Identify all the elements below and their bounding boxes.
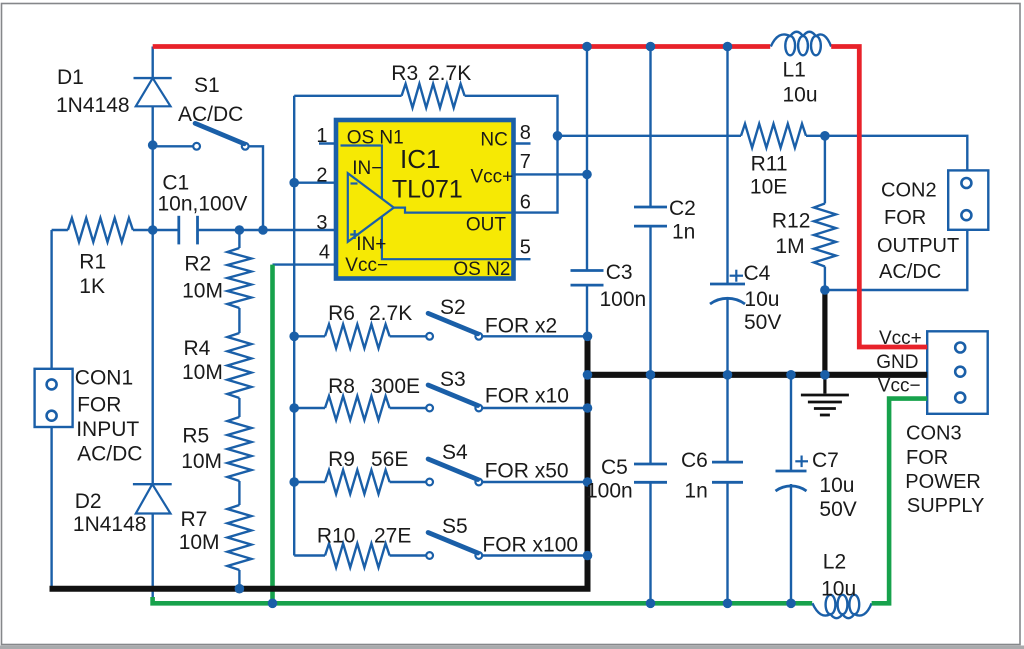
svg-text:3: 3 [316, 212, 327, 234]
svg-text:C3: C3 [606, 261, 633, 284]
svg-text:R3: R3 [391, 62, 418, 85]
svg-text:Vcc−: Vcc− [878, 376, 921, 397]
svg-text:50V: 50V [819, 498, 856, 521]
svg-text:L2: L2 [823, 550, 846, 573]
svg-text:C5: C5 [601, 456, 628, 479]
svg-text:CON2: CON2 [881, 180, 937, 202]
svg-text:1n: 1n [672, 221, 695, 244]
svg-text:7: 7 [520, 151, 531, 173]
svg-text:FOR: FOR [906, 447, 948, 469]
svg-text:Vcc+: Vcc+ [879, 328, 922, 349]
svg-text:10M: 10M [182, 361, 223, 384]
svg-text:INPUT: INPUT [76, 418, 139, 441]
svg-text:OS N1: OS N1 [347, 128, 404, 149]
svg-text:FOR: FOR [884, 207, 926, 229]
svg-text:2.7K: 2.7K [428, 62, 471, 85]
svg-text:R6: R6 [328, 302, 355, 325]
svg-text:R1: R1 [79, 251, 106, 274]
svg-text:OUTPUT: OUTPUT [877, 235, 959, 257]
svg-text:AC/DC: AC/DC [77, 443, 142, 466]
svg-text:5: 5 [520, 237, 531, 259]
svg-text:S2: S2 [440, 296, 466, 319]
svg-text:R4: R4 [184, 337, 211, 360]
svg-text:C4: C4 [744, 262, 771, 285]
svg-text:50V: 50V [744, 311, 781, 334]
svg-text:TL071: TL071 [392, 176, 463, 204]
svg-text:Vcc−: Vcc− [345, 255, 388, 276]
svg-text:FOR x50: FOR x50 [485, 460, 569, 483]
svg-text:C2: C2 [669, 197, 696, 220]
svg-text:FOR: FOR [77, 393, 121, 416]
svg-text:R11: R11 [751, 153, 788, 176]
svg-text:100n: 100n [586, 480, 633, 503]
svg-text:10u: 10u [744, 288, 779, 311]
svg-text:2: 2 [316, 165, 327, 187]
svg-text:FOR x100: FOR x100 [482, 534, 578, 557]
svg-text:2.7K: 2.7K [369, 302, 412, 325]
svg-text:FOR x2: FOR x2 [485, 314, 557, 337]
svg-text:56E: 56E [371, 448, 408, 471]
svg-text:10M: 10M [181, 450, 222, 473]
svg-text:OS N2: OS N2 [453, 259, 510, 280]
svg-text:8: 8 [520, 122, 531, 144]
svg-text:SUPPLY: SUPPLY [907, 495, 984, 517]
svg-text:R7: R7 [181, 508, 208, 531]
svg-text:CON1: CON1 [75, 367, 133, 390]
svg-text:R8: R8 [328, 375, 355, 398]
svg-text:1N4148: 1N4148 [56, 94, 130, 117]
svg-text:C1: C1 [162, 172, 189, 195]
svg-text:C6: C6 [681, 449, 708, 472]
svg-text:1N4148: 1N4148 [73, 513, 147, 536]
svg-text:10u: 10u [783, 84, 818, 107]
svg-text:10E: 10E [750, 176, 787, 199]
svg-text:IN+: IN+ [356, 234, 386, 255]
svg-text:NC: NC [480, 129, 507, 150]
svg-text:POWER: POWER [905, 471, 981, 493]
svg-text:6: 6 [520, 192, 531, 214]
svg-text:1: 1 [316, 125, 327, 147]
svg-text:10u: 10u [819, 474, 854, 497]
svg-text:300E: 300E [371, 375, 420, 398]
svg-text:1M: 1M [775, 235, 804, 258]
svg-text:D2: D2 [75, 490, 102, 513]
svg-text:Vcc+: Vcc+ [471, 166, 514, 187]
svg-text:100n: 100n [600, 288, 647, 311]
svg-text:S3: S3 [440, 368, 466, 391]
svg-text:1n: 1n [684, 480, 707, 503]
svg-text:1K: 1K [79, 275, 105, 298]
svg-text:IN−: IN− [352, 158, 382, 179]
svg-text:AC/DC: AC/DC [879, 261, 941, 283]
svg-text:CON3: CON3 [906, 423, 962, 445]
svg-text:S5: S5 [442, 515, 468, 538]
svg-text:C7: C7 [812, 449, 839, 472]
svg-text:10n,100V: 10n,100V [158, 193, 248, 216]
svg-text:OUT: OUT [466, 215, 507, 236]
svg-text:R2: R2 [184, 253, 211, 276]
svg-text:27E: 27E [374, 525, 411, 548]
svg-text:10u: 10u [821, 577, 856, 600]
svg-text:10M: 10M [182, 279, 223, 302]
svg-text:S1: S1 [194, 74, 220, 97]
svg-text:L1: L1 [783, 59, 806, 82]
svg-text:R10: R10 [317, 525, 356, 548]
svg-text:AC/DC: AC/DC [178, 103, 243, 126]
svg-text:D1: D1 [57, 66, 84, 89]
svg-text:FOR x10: FOR x10 [485, 384, 569, 407]
svg-text:10M: 10M [179, 531, 220, 554]
svg-text:GND: GND [876, 352, 918, 373]
svg-text:IC1: IC1 [400, 144, 440, 174]
svg-text:R5: R5 [182, 425, 209, 448]
svg-text:R9: R9 [328, 448, 355, 471]
svg-text:R12: R12 [772, 209, 811, 232]
svg-text:4: 4 [319, 242, 330, 264]
svg-text:S4: S4 [442, 441, 468, 464]
